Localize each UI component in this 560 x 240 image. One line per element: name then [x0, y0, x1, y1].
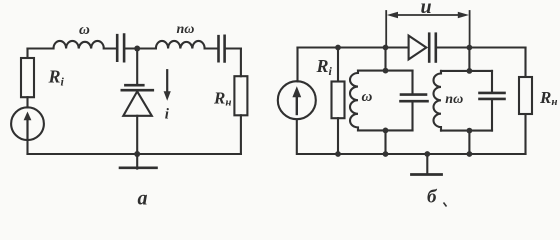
capacitor C4 (tank2) — [491, 71, 493, 131]
svg-text:ω: ω — [362, 89, 373, 105]
wire: circuit b bottom rail — [298, 153, 526, 155]
capacitor C1 — [117, 35, 124, 62]
varactor VD1: wide bar — [122, 89, 153, 92]
node: junction bottom of varactor — [134, 151, 140, 157]
wire: tank2 bottom stem — [468, 131, 470, 154]
ground (circuit a) — [136, 154, 138, 169]
inductor L3 (omega tank) — [350, 71, 358, 131]
resistor Ri (circuit a) — [21, 58, 34, 97]
wire: tank1 top stem — [384, 48, 386, 71]
svg-text:Rн: Rн — [213, 89, 231, 109]
node tank1 top — [383, 68, 389, 74]
wire: circuit b Ri branch — [337, 48, 339, 155]
capacitor C3 (tank1) — [411, 71, 413, 131]
varactor VD2: bar1 — [428, 34, 431, 62]
wire: tank1 top side — [358, 70, 413, 72]
wire: tank2 top side — [441, 70, 492, 72]
node tank1 rail — [383, 45, 389, 51]
svg-text:i: i — [165, 107, 170, 123]
node Ri top — [335, 45, 341, 51]
wire: tank2 bottom side — [441, 130, 492, 132]
svg-text:а: а — [138, 187, 148, 208]
u measure: right arrowhead — [458, 12, 469, 19]
current source I1 (circuit a) — [11, 107, 44, 140]
wire: circuit a top rail segments — [28, 47, 241, 49]
varactor VD1: triangle — [123, 91, 152, 115]
inductor L2 (n-omega) — [156, 41, 205, 49]
u measure: left arrowhead — [387, 12, 398, 19]
node tank2 top — [467, 68, 473, 74]
node tank1 bottom — [383, 127, 389, 133]
varactor VD2: bar2 — [434, 34, 437, 62]
wire: circuit b left branch — [296, 48, 299, 155]
node Ri bottom — [335, 151, 341, 157]
inductor L1 (omega) — [53, 41, 103, 49]
svg-text:б: б — [427, 186, 438, 207]
u measure: dimension line — [395, 14, 461, 16]
wire: circuit b right branch — [524, 48, 526, 155]
inductor L4 (n-omega tank) — [434, 71, 442, 131]
node tank2 stem bottom — [467, 151, 473, 157]
svg-text:Ri: Ri — [316, 56, 333, 78]
wire: circuit b top rail segments — [298, 46, 526, 48]
varactor VD2 (circuit b): triangle — [409, 36, 427, 60]
node tank2 rail — [467, 45, 473, 51]
wire: circuit a right branch — [240, 49, 242, 155]
wire: circuit a left branch — [26, 49, 28, 155]
svg-text:ω: ω — [79, 22, 90, 38]
svg-text:nω: nω — [445, 92, 463, 107]
node: junction top of varactor — [134, 46, 140, 52]
u measure: right tick — [469, 11, 471, 45]
current arrow i (circuit a) — [166, 70, 168, 92]
ground (circuit b) — [426, 154, 428, 174]
resistor Ri (circuit b) — [332, 82, 345, 119]
svg-text:Ri: Ri — [48, 67, 65, 89]
wire: tank1 bottom side — [358, 129, 413, 131]
node tank2 bottom — [467, 128, 473, 134]
wire: tank2 top stem — [468, 48, 470, 71]
svg-text:nω: nω — [177, 22, 195, 37]
u measure: left tick — [385, 11, 387, 45]
node ground b — [424, 151, 430, 157]
resistor Rn (load, circuit a) — [234, 76, 247, 115]
tick mark after b — [444, 203, 447, 207]
wire: circuit a bottom rail — [28, 153, 241, 155]
resistor Rn (load, circuit b) — [519, 77, 532, 114]
node tank1 stem bottom — [383, 151, 389, 157]
capacitor C2 — [219, 36, 225, 62]
wire: circuit a middle branch (varactor leg) — [136, 49, 138, 155]
svg-text:u: u — [421, 0, 432, 18]
varactor VD1 (circuit a): short bar — [125, 84, 143, 87]
wire: tank1 bottom stem — [384, 130, 386, 154]
svg-text:Rн: Rн — [539, 88, 557, 108]
current source I2 (circuit b) — [278, 81, 316, 119]
node dots circuit b — [335, 45, 472, 157]
